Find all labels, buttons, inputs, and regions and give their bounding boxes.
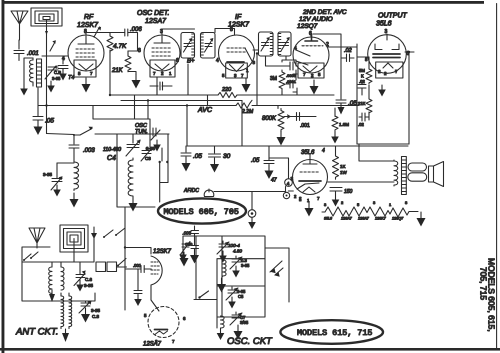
filter capacitor .05 xyxy=(181,146,191,156)
ground below 21K xyxy=(128,72,136,75)
page border top bar xyxy=(2,1,485,4)
main lower bus y146 xyxy=(187,145,408,147)
svg-text:C.B: C.B xyxy=(54,70,61,75)
tube V4 12SQ7 xyxy=(293,31,329,78)
trimmer 100-480 xyxy=(217,241,229,254)
svg-text:12SA7: 12SA7 xyxy=(145,18,167,25)
pilot lamp arc xyxy=(204,189,214,197)
IF transformer T2 winding 2 xyxy=(201,33,216,59)
ground below trimmer xyxy=(47,81,55,93)
cap .02 in box xyxy=(359,113,369,121)
svg-text:220: 220 xyxy=(221,87,232,93)
arrow near loop right xyxy=(94,27,100,37)
riser x148 grid line xyxy=(147,101,149,120)
filament string resistor xyxy=(322,207,418,217)
svg-text:2: 2 xyxy=(341,200,344,205)
svg-text:12SK7: 12SK7 xyxy=(153,249,172,255)
svg-text:T4: T4 xyxy=(68,75,74,81)
svg-text:1: 1 xyxy=(169,71,172,76)
svg-text:3-35: 3-35 xyxy=(43,172,53,177)
svg-text:35L6: 35L6 xyxy=(376,21,392,28)
resistor in box R-screen xyxy=(366,57,372,84)
riser x242 xyxy=(241,101,243,147)
cap .05 at V4 plate xyxy=(336,95,346,107)
ground inside output box xyxy=(378,85,386,97)
svg-text:3-35: 3-35 xyxy=(84,283,94,288)
jack circle xyxy=(248,210,256,218)
osc coil right xyxy=(128,158,133,197)
riser x187 xyxy=(186,106,188,147)
tube V5 OUTPUT 35L6 xyxy=(365,29,410,78)
svg-text:12SA7: 12SA7 xyxy=(341,217,353,221)
svg-text:3: 3 xyxy=(324,202,327,207)
wire switch feed xyxy=(47,134,75,135)
callout oval MODELS 605 705 xyxy=(158,198,246,223)
cap C7 mid xyxy=(134,275,142,294)
svg-text:.003: .003 xyxy=(83,148,95,154)
IF transformer T3 winding 1 xyxy=(259,32,274,56)
label OUTPUT stage xyxy=(376,13,408,28)
trimmer left of C10 xyxy=(181,242,191,255)
resistor 220 on bus xyxy=(218,92,237,97)
bus y100 xyxy=(121,100,242,102)
loop antenna spiral xyxy=(31,8,62,35)
switch contacts xyxy=(104,228,125,237)
trimmer 0.3 3-35 xyxy=(230,256,242,269)
cap C10 xyxy=(191,246,199,249)
svg-text:1: 1 xyxy=(246,68,249,73)
svg-text:12SQ7: 12SQ7 xyxy=(392,217,404,221)
callout oval MODELS 615 715 xyxy=(280,320,383,344)
resistor 1.6M xyxy=(332,108,338,132)
svg-text:3-35: 3-35 xyxy=(241,263,250,268)
page border left bar xyxy=(2,0,5,353)
cap .0001 below V2 xyxy=(150,82,172,90)
svg-text:8: 8 xyxy=(405,200,408,205)
svg-text:RF: RF xyxy=(84,14,94,21)
svg-text:C5: C5 xyxy=(238,294,244,299)
resistor 1K 1W xyxy=(333,146,339,179)
svg-text:7: 7 xyxy=(241,73,244,78)
cap .001 audio coupling xyxy=(290,113,316,121)
filter capacitor 30 xyxy=(209,146,221,157)
small trimmer at osc tun xyxy=(151,128,160,140)
svg-text:OSC. CKT: OSC. CKT xyxy=(227,336,273,347)
svg-text:MODELS 605, 705: MODELS 605, 705 xyxy=(164,207,239,217)
risers below T3 xyxy=(257,54,286,109)
trimmer C7 3/35 xyxy=(230,312,242,325)
rectangle loop wire xyxy=(22,262,95,301)
svg-text:1.6M: 1.6M xyxy=(339,122,349,127)
riser 4.7K to bus xyxy=(110,50,135,119)
svg-text:OUTPUT: OUTPUT xyxy=(378,13,408,20)
left trimmer 3-35 xyxy=(51,163,62,190)
antenna coil T1 xyxy=(30,58,33,86)
coupling cap .02 to output grid xyxy=(341,54,354,62)
svg-text:21K: 21K xyxy=(111,68,124,74)
svg-text:800K: 800K xyxy=(262,116,277,122)
svg-text:3: 3 xyxy=(160,29,163,35)
resistor 4.7K xyxy=(107,33,113,53)
LOWER 35L6 TUBE V6 xyxy=(291,148,328,203)
wire IF plate to T3 xyxy=(253,49,259,51)
svg-text:2: 2 xyxy=(311,73,314,78)
svg-text:AF/DC: AF/DC xyxy=(183,188,199,194)
svg-text:2: 2 xyxy=(161,71,164,76)
wire V4 pin6 top to plate column xyxy=(313,34,341,95)
svg-text:1: 1 xyxy=(389,202,392,207)
svg-text:705, 715: 705, 715 xyxy=(479,267,489,300)
osc coil left xyxy=(74,162,79,190)
trimmer C8 xyxy=(79,301,91,313)
svg-text:1W: 1W xyxy=(340,170,348,175)
ground left of coil xyxy=(20,84,28,96)
svg-text:3-35: 3-35 xyxy=(52,76,61,81)
wire T2 to IF grid xyxy=(215,29,235,36)
svg-text:100-4: 100-4 xyxy=(228,243,240,248)
volume control 800K xyxy=(278,109,284,132)
svg-text:3: 3 xyxy=(373,200,376,205)
lower switch contacts xyxy=(24,252,38,260)
wire to oval xyxy=(117,134,155,207)
svg-text:.02: .02 xyxy=(344,48,352,54)
riser V2 cathode to bus xyxy=(156,86,158,95)
label IF stage xyxy=(228,14,250,29)
svg-text:12SQ7: 12SQ7 xyxy=(297,23,318,30)
OPT primary coil xyxy=(394,160,398,186)
svg-text:4: 4 xyxy=(216,58,219,64)
label 2ND DET AVC stage xyxy=(297,9,347,30)
wire oval to V6 xyxy=(288,190,293,192)
main tuning cap C4 xyxy=(126,134,140,156)
resistor 2.2M on bus xyxy=(236,100,252,108)
svg-text:5: 5 xyxy=(222,73,225,78)
svg-text:.05: .05 xyxy=(193,153,202,160)
capacitor .05 left xyxy=(33,88,43,120)
page border bottom bar xyxy=(0,348,500,351)
switch arm xyxy=(74,129,92,136)
svg-text:4: 4 xyxy=(287,181,290,187)
svg-text:C3: C3 xyxy=(145,156,151,161)
label OSC DET stage xyxy=(137,10,169,25)
svg-text:.0001: .0001 xyxy=(286,79,297,84)
wire V5 plate right xyxy=(405,52,414,56)
wire antenna to cap xyxy=(19,28,21,40)
grounds below osc box xyxy=(234,325,243,340)
tube V2 OSC-DET 12SA7 xyxy=(138,29,180,77)
svg-text:.006: .006 xyxy=(130,27,142,33)
svg-text:21K: 21K xyxy=(358,101,366,106)
wire y134 xyxy=(95,133,169,135)
dashed tube V7 12SA7 xyxy=(148,307,179,338)
cap .005 xyxy=(191,226,199,246)
svg-text:4: 4 xyxy=(294,46,297,52)
resistor 21K in box xyxy=(366,97,372,115)
svg-text:150: 150 xyxy=(344,189,353,195)
label RF stage xyxy=(77,14,99,29)
resistor 21K xyxy=(125,51,131,72)
svg-text:AVC: AVC xyxy=(197,107,213,114)
svg-text:OSC DET.: OSC DET. xyxy=(137,10,169,17)
svg-text:6: 6 xyxy=(183,316,186,321)
wire loop down to band switch xyxy=(46,34,48,134)
svg-text:12SK7: 12SK7 xyxy=(375,217,387,221)
junction dots xyxy=(186,104,188,106)
filter capacitor .05 right xyxy=(264,146,274,164)
speaker cone xyxy=(429,162,444,187)
svg-text:6: 6 xyxy=(176,58,179,64)
svg-text:3: 3 xyxy=(385,29,388,35)
ant coil B xyxy=(61,267,64,290)
ground below cathode cap xyxy=(59,69,67,81)
cap 150 electrolytic xyxy=(330,188,342,196)
svg-text:.001: .001 xyxy=(133,263,142,268)
capacitor at RF cathode xyxy=(58,56,68,69)
margin text vertical xyxy=(479,258,497,332)
svg-text:35L6: 35L6 xyxy=(324,217,332,221)
svg-text:12SA7: 12SA7 xyxy=(143,342,162,348)
wire RF plate to osc grid xyxy=(86,33,138,52)
svg-text:30: 30 xyxy=(223,153,231,160)
svg-text:C.8: C.8 xyxy=(92,314,100,319)
arrow at loop right xyxy=(93,227,95,233)
svg-text:2.2M: 2.2M xyxy=(241,109,254,115)
svg-text:C.6: C.6 xyxy=(85,277,93,282)
svg-text:.005: .005 xyxy=(183,231,192,236)
svg-text:2: 2 xyxy=(378,69,381,74)
wire to V5 grid xyxy=(357,56,369,58)
antenna triangle 2 xyxy=(29,228,45,248)
ground below V3 xyxy=(242,78,251,93)
OPT core hatched xyxy=(402,157,407,195)
svg-text:7: 7 xyxy=(317,196,320,201)
svg-text:2: 2 xyxy=(299,196,302,201)
svg-text:110-480: 110-480 xyxy=(103,147,121,153)
wire to diode cap xyxy=(125,269,141,275)
wire .001 cap joins 1.6M xyxy=(334,116,336,118)
trimmer CB 3-35 xyxy=(45,66,58,79)
osc box xyxy=(217,236,265,328)
AVC bus y105.5 xyxy=(38,105,359,107)
svg-text:ANT CKT.: ANT CKT. xyxy=(15,327,58,338)
svg-text:7: 7 xyxy=(90,71,93,76)
svg-text:MODELS 615, 715: MODELS 615, 715 xyxy=(297,328,372,338)
capacitor .006 xyxy=(125,29,128,36)
phono jack circle xyxy=(283,192,289,198)
svg-text:3M: 3M xyxy=(270,76,277,82)
svg-text:.02: .02 xyxy=(358,122,364,127)
wire top to box xyxy=(183,236,222,250)
svg-text:IF: IF xyxy=(235,14,242,21)
wire box to OPT xyxy=(359,144,394,161)
B+ bus y95 xyxy=(110,94,334,96)
wire V2 top to T2 xyxy=(162,28,195,30)
svg-text:8: 8 xyxy=(230,27,233,33)
IF transformer T2 winding 1 xyxy=(181,33,195,59)
ant coil A xyxy=(49,267,52,294)
band switch near loop xyxy=(50,42,55,51)
svg-text:.001: .001 xyxy=(27,51,39,57)
wires right of box xyxy=(265,248,289,302)
cap .001 det xyxy=(141,266,144,273)
trimmer C6 xyxy=(74,262,85,286)
speaker voice coil xyxy=(408,163,427,171)
osc coil lower xyxy=(221,316,225,328)
wire V6 plate to OPT xyxy=(328,181,395,183)
antenna input triangle xyxy=(11,11,28,24)
svg-text:.05: .05 xyxy=(251,158,260,164)
svg-text:4: 4 xyxy=(322,148,325,154)
svg-text:3: 3 xyxy=(234,73,237,78)
right vertical pair switch xyxy=(160,134,168,202)
svg-text:3-35: 3-35 xyxy=(91,308,101,313)
svg-text:7: 7 xyxy=(303,72,306,77)
trimmer C3 xyxy=(141,148,152,161)
svg-text:5: 5 xyxy=(318,72,321,77)
osc line y119 xyxy=(93,106,150,149)
page border right line xyxy=(496,4,498,349)
svg-text:3-35: 3-35 xyxy=(146,146,156,151)
resistor 3M xyxy=(279,70,285,90)
pilot lamp circle 4 xyxy=(285,179,293,187)
svg-text:K: K xyxy=(361,74,364,79)
svg-text:7: 7 xyxy=(172,339,175,344)
capacitor .003 xyxy=(69,135,79,162)
svg-text:5: 5 xyxy=(144,313,147,318)
loop connector block xyxy=(96,262,106,272)
tube V3 IF 12SK7 xyxy=(216,27,256,78)
svg-text:4.7K: 4.7K xyxy=(113,43,127,50)
svg-text:3: 3 xyxy=(253,60,256,65)
svg-text:.001: .001 xyxy=(300,123,310,129)
svg-text:35L6: 35L6 xyxy=(301,150,315,156)
ground below V1 xyxy=(82,78,91,93)
loop antenna 2 spiral xyxy=(60,225,88,252)
ground below V4 xyxy=(310,80,319,95)
wire V4 pin2 to box edge xyxy=(328,46,357,48)
svg-text:5: 5 xyxy=(357,202,360,207)
wire V1 pin4 to antenna coil xyxy=(42,55,68,57)
cap at box left xyxy=(358,81,366,96)
svg-text:6: 6 xyxy=(309,31,312,37)
svg-text:3/35: 3/35 xyxy=(240,320,249,325)
main ant coil bifilar xyxy=(61,296,64,329)
IF transformer T3 winding 2 xyxy=(278,32,291,56)
wire lamp to filter cap xyxy=(269,158,289,179)
svg-text:4.80: 4.80 xyxy=(233,249,242,254)
box left edge xyxy=(356,44,358,144)
trimmer C5 xyxy=(226,287,238,300)
dual caps at V4 diode xyxy=(286,62,297,92)
svg-text:.0005: .0005 xyxy=(286,73,297,78)
half tube diode xyxy=(151,256,162,285)
svg-text:47: 47 xyxy=(271,178,277,184)
svg-text:12SA7: 12SA7 xyxy=(358,217,370,221)
svg-text:8: 8 xyxy=(138,48,141,54)
svg-text:2: 2 xyxy=(294,194,297,199)
box right edge xyxy=(408,56,410,144)
capacitor .001 antenna xyxy=(14,40,24,61)
svg-text:.05: .05 xyxy=(348,100,357,107)
svg-text:.05: .05 xyxy=(45,118,54,125)
svg-text:5M: 5M xyxy=(359,68,365,73)
osc coil upper xyxy=(223,260,227,277)
wires ant section xyxy=(22,233,94,262)
wire pilot to lamp xyxy=(214,187,286,192)
svg-text:12V AUDIO: 12V AUDIO xyxy=(299,16,333,23)
ground end of filament string xyxy=(417,212,426,227)
svg-text:5: 5 xyxy=(78,71,81,76)
svg-text:1K: 1K xyxy=(340,164,346,169)
osc switch xyxy=(194,291,217,300)
tube V1 RF 12SK7 xyxy=(62,29,104,77)
main riser x125 xyxy=(124,207,126,310)
svg-text:12SK7: 12SK7 xyxy=(77,22,99,29)
box bottom xyxy=(357,143,409,145)
svg-text:C4: C4 xyxy=(107,155,116,162)
svg-text:7: 7 xyxy=(153,71,156,76)
svg-text:2ND DET. AVC: 2ND DET. AVC xyxy=(302,9,347,16)
riser V3 to bus xyxy=(188,64,208,106)
